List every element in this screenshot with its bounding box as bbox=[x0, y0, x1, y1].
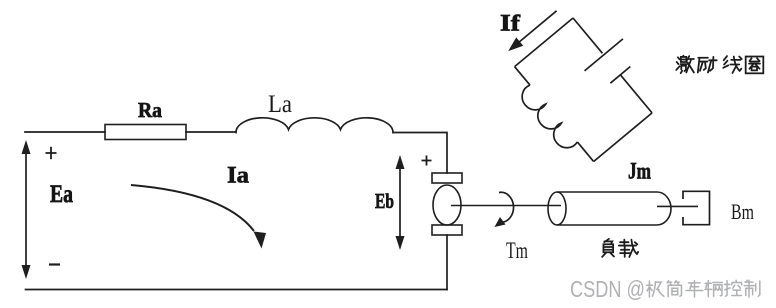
svg-text:If: If bbox=[500, 11, 520, 36]
text 激 bbox=[676, 56, 694, 73]
wire inductor to right corner bbox=[393, 133, 447, 174]
field coil circuit (rotated) bbox=[488, 0, 671, 172]
field current arrow If line bbox=[517, 11, 557, 44]
svg-text:Eb: Eb bbox=[375, 189, 394, 213]
wire coil to left corner bbox=[515, 67, 530, 85]
svg-text:CSDN @: CSDN @ bbox=[570, 276, 645, 302]
watermark 车 bbox=[686, 281, 703, 297]
svg-text:Ea: Ea bbox=[50, 181, 73, 208]
watermark 制 bbox=[744, 280, 760, 297]
svg-text:Ra: Ra bbox=[138, 98, 162, 122]
battery short plate bbox=[610, 67, 630, 84]
wire bottom bbox=[26, 289, 448, 291]
brush bottom bbox=[432, 225, 462, 235]
watermark 简 bbox=[667, 281, 681, 297]
arrowhead If bbox=[505, 37, 524, 55]
wire top edge to battery bbox=[573, 18, 602, 53]
arrowhead Ia bbox=[254, 232, 267, 249]
svg-text:La: La bbox=[268, 91, 292, 118]
current arrow Ia bbox=[131, 185, 254, 231]
damper bracket Bm bbox=[683, 191, 710, 224]
source arrow Ea bbox=[22, 140, 31, 279]
shaft motor to load bbox=[451, 205, 561, 207]
text 负 bbox=[602, 239, 614, 257]
plus sign Eb bbox=[422, 156, 432, 166]
svg-text:Jm: Jm bbox=[628, 159, 651, 184]
text 圈 bbox=[746, 57, 764, 74]
wire resistor to inductor bbox=[186, 131, 236, 133]
watermark 极 bbox=[647, 281, 664, 297]
resistor Ra bbox=[105, 125, 186, 140]
wire right edge bbox=[594, 113, 652, 162]
svg-text:Bm: Bm bbox=[731, 199, 754, 224]
brush top bbox=[432, 173, 462, 183]
battery long plate bbox=[585, 39, 623, 71]
motor armature ellipse bbox=[433, 185, 461, 225]
svg-text:Tm: Tm bbox=[506, 238, 528, 263]
watermark 辆 bbox=[705, 281, 722, 297]
minus sign Ea bbox=[49, 263, 60, 265]
inductor La bbox=[236, 118, 393, 133]
text 线 bbox=[723, 56, 741, 73]
plus sign Ea bbox=[46, 147, 57, 159]
wire bottom edge straight part bbox=[577, 142, 593, 162]
wire battery to right corner bbox=[620, 75, 652, 113]
arrowhead Tm bbox=[495, 217, 506, 227]
torque arc Tm bbox=[499, 192, 514, 222]
wire left edge bbox=[515, 18, 573, 67]
text 励 bbox=[698, 57, 717, 73]
shaft load to damper bbox=[657, 205, 698, 207]
wire top-left segment bbox=[25, 131, 105, 133]
text 载 bbox=[619, 240, 638, 257]
svg-text:Ia: Ia bbox=[227, 163, 250, 188]
wire motor to bottom bbox=[446, 235, 448, 290]
emf arrow Eb bbox=[396, 155, 405, 250]
watermark 控 bbox=[725, 280, 742, 296]
field inductor coil bbox=[517, 85, 578, 153]
load cylinder bbox=[548, 192, 671, 225]
